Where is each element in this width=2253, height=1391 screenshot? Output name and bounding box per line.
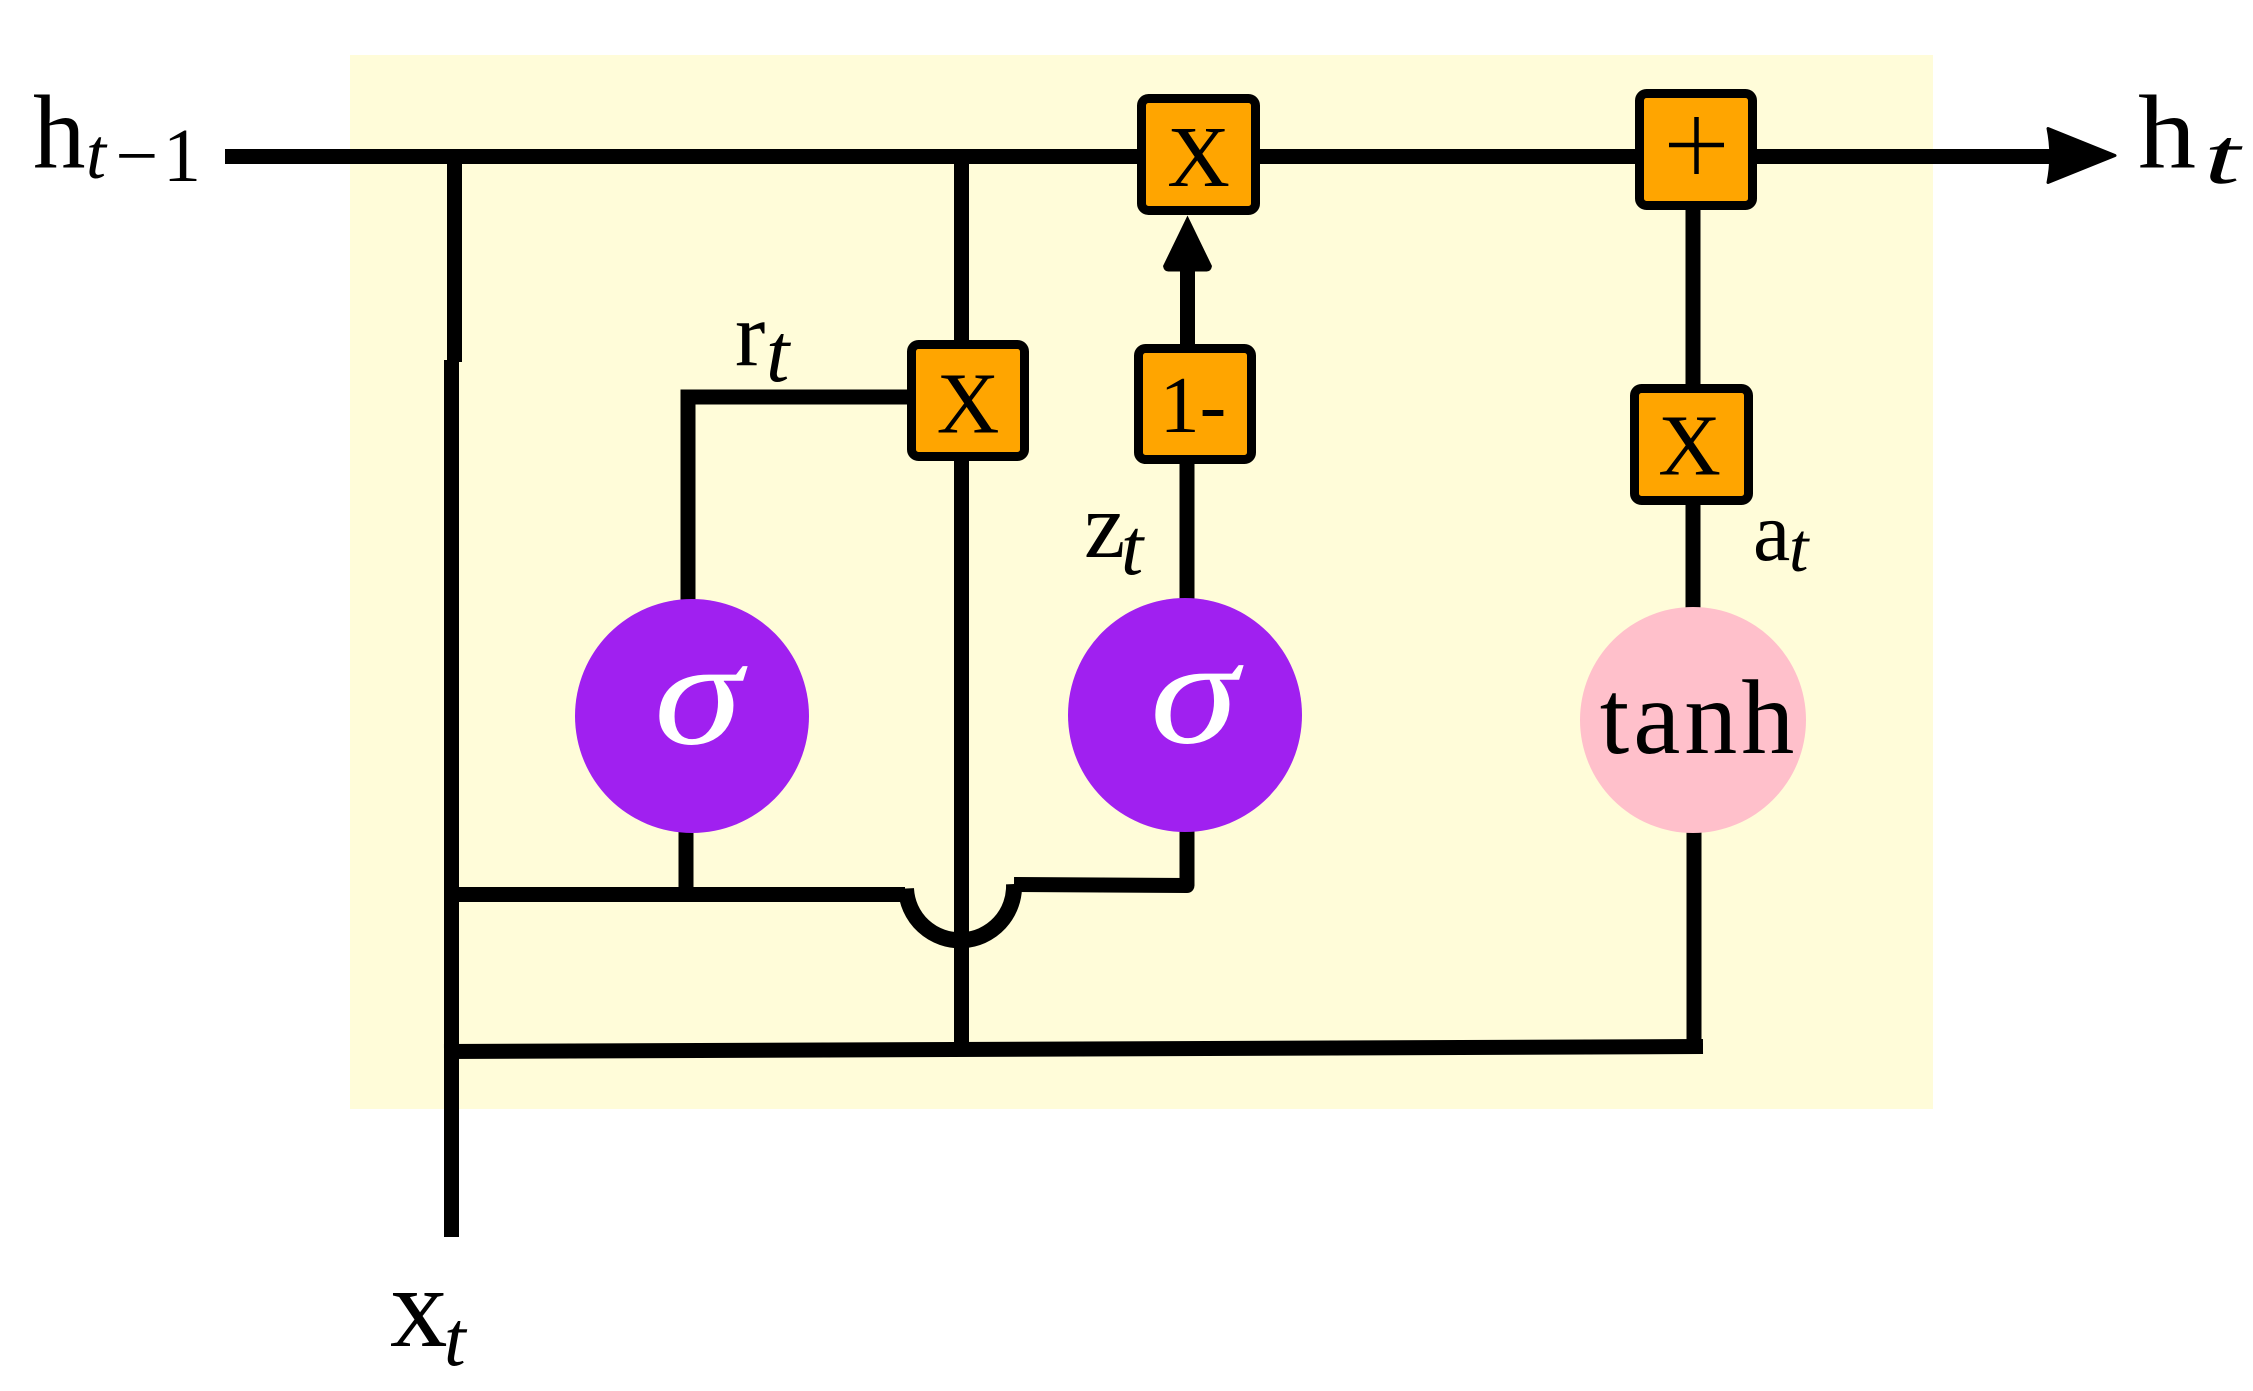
mult gate X-right box [1635,389,1749,501]
arrowhead up into X-top [1163,216,1212,272]
GRU cell background [350,55,1933,1109]
wire tanh bottom drop [1687,828,1702,1054]
arrowhead h_t [2048,129,2115,183]
wire arrow shaft 1- box to X-top [1180,266,1195,344]
wire sigma2 top to 1- box [1180,464,1195,602]
svg-text:σ: σ [1150,610,1244,776]
svg-text:1: 1 [163,114,201,198]
wire hop arc [906,884,1014,940]
mult gate X-mid box [912,345,1025,457]
svg-text:1-: 1- [1160,362,1227,450]
svg-text:r: r [735,284,765,385]
wire plus box down to X-right [1686,205,1701,390]
svg-text:X: X [1658,397,1721,494]
mult gate X-top box [1142,99,1256,211]
wire feed left (x_t line to hop) [444,887,905,902]
svg-text:−: − [116,114,159,198]
wire x_t vertical upper [447,149,462,362]
svg-text:t: t [444,1295,468,1382]
svg-text:x: x [390,1244,448,1371]
wire X-right to tanh [1686,500,1701,612]
1-minus box [1139,349,1252,460]
svg-text:a: a [1753,486,1790,579]
svg-text:t: t [1789,510,1810,587]
wire bottom feed line [444,1047,1703,1052]
svg-text:t: t [1121,504,1145,592]
svg-text:z: z [1084,475,1125,578]
wire feed right + z elbow to sigma2 [1014,826,1187,886]
sigma gate circle 1 [575,599,809,833]
svg-text:h: h [2138,74,2196,191]
tanh circle [1580,607,1806,833]
svg-text:σ: σ [654,611,748,777]
svg-text:tanh: tanh [1600,659,1799,776]
svg-text:X: X [937,355,1000,452]
sigma gate circle 2 [1068,598,1302,832]
wire sigma1 bottom drop [679,828,694,902]
wire h-line (h_t-1 to h_t) [225,149,2052,164]
wire r_t elbow (sigma1 top to X-mid box) [688,397,907,600]
add gate + box [1640,94,1753,206]
svg-text:t: t [766,307,792,400]
wire x_t vertical lower [444,360,459,1237]
wire middle vertical (through X-mid box) [954,149,969,1050]
svg-text:h: h [33,74,86,191]
svg-text:t: t [86,114,108,194]
svg-text:X: X [1167,108,1230,205]
svg-text:t: t [2204,113,2243,201]
